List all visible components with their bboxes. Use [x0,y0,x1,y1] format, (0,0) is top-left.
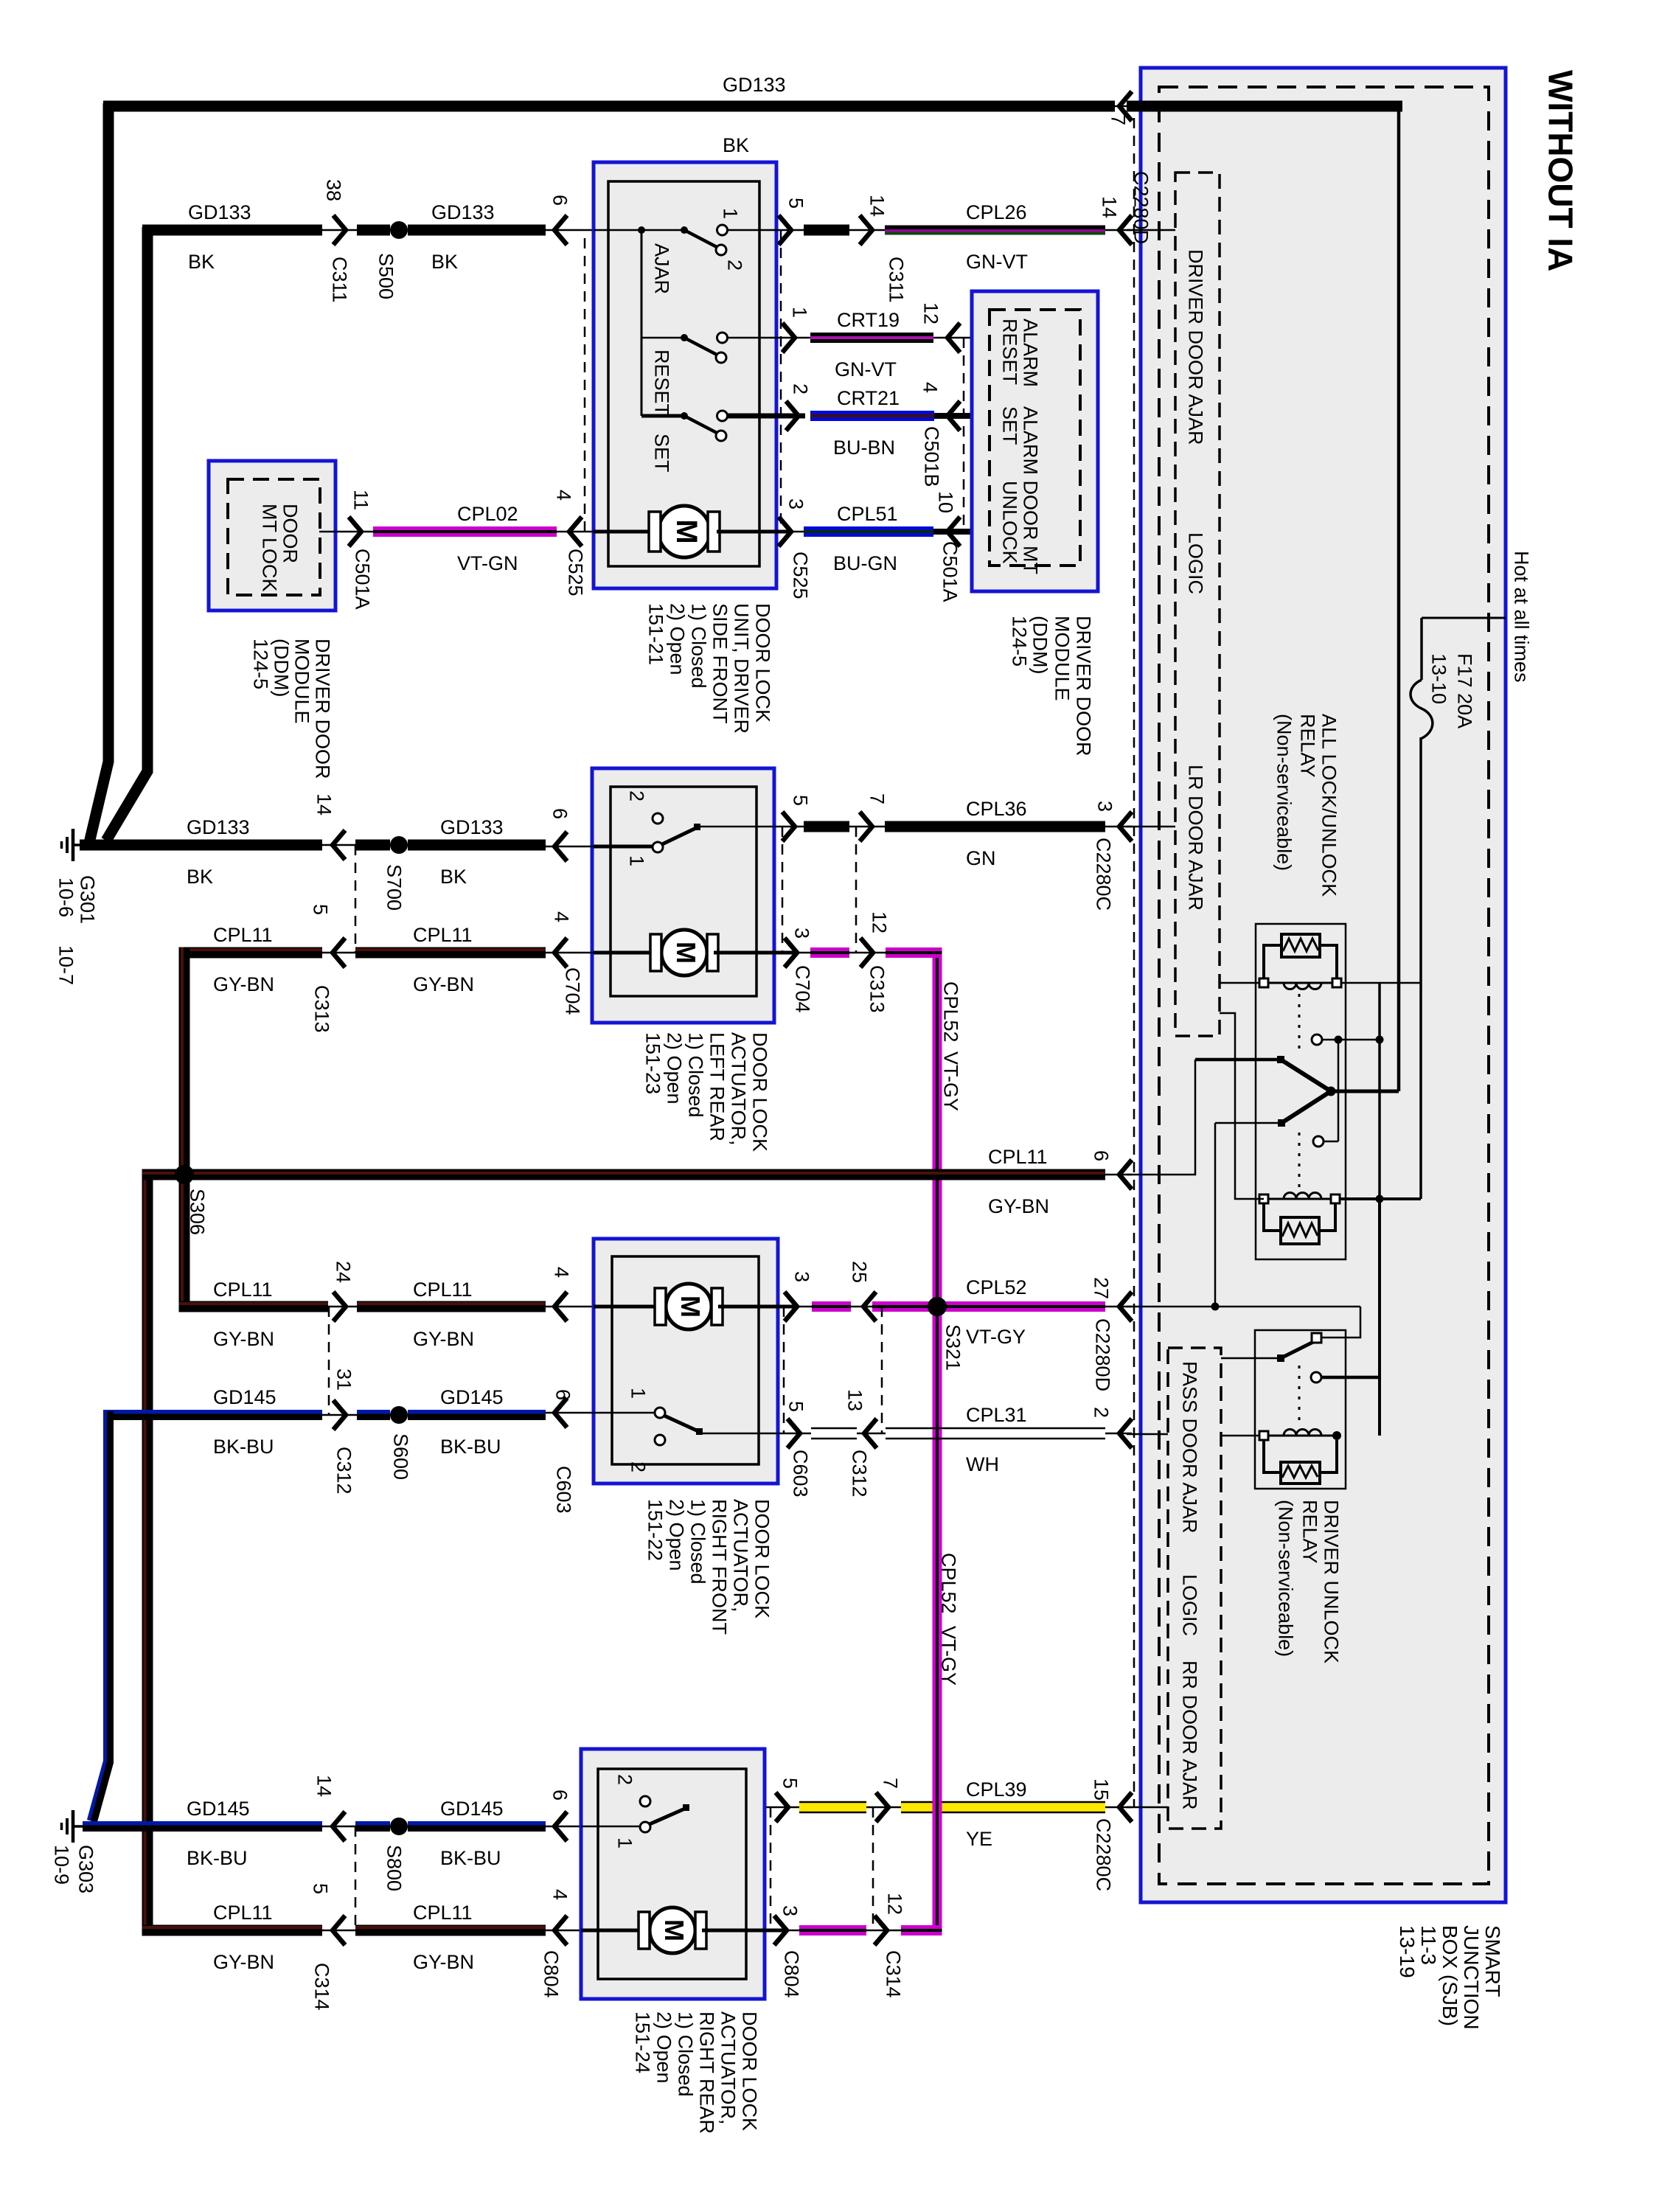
wire CPL51 BU-GN [804,526,933,530]
svg-text:C525: C525 [789,552,811,599]
splice S321 dot top [928,1297,947,1316]
connector chevron pin3 C525 [779,517,791,546]
wire CPL52 link RF [812,1301,851,1305]
relay K1 lower fixed contact [1313,1136,1324,1147]
wire coil L1 to fuse line [1341,982,1421,984]
wire LR motor feed [594,951,652,955]
connector chevron 25 C312 [863,1292,876,1321]
connector chevron pin6 LR [554,832,567,861]
svg-text:LOGIC: LOGIC [1178,1574,1200,1636]
svg-text:DRIVER DOOR AJAR: DRIVER DOOR AJAR [1184,249,1206,445]
svg-text:3: 3 [790,928,813,939]
svg-text:1) Closed: 1) Closed [686,1499,709,1585]
svg-text:M: M [671,942,701,964]
ground G301 [74,844,96,846]
svg-text:C2280D: C2280D [1091,1318,1113,1391]
svg-text:C313: C313 [866,965,888,1013]
svg-text:BU-GN: BU-GN [833,552,897,574]
relay K1 dotted link lower [1298,1133,1301,1189]
wire CPL11 long horizontal [142,1169,1105,1180]
svg-text:5: 5 [789,795,811,806]
wire CRT21 BU-BN [810,411,934,414]
connector chevron pin6 C2280 [1119,1160,1132,1189]
svg-text:DOOR: DOOR [279,504,301,563]
svg-text:151-23: 151-23 [641,1032,664,1094]
connector chevron pin5 C525 [779,215,791,245]
svg-text:27: 27 [1090,1277,1112,1299]
connector chevron pin14 C2280D [1119,215,1132,245]
connector chevron pin15 C2280C [1119,1792,1132,1822]
relay K2 lower contact [1311,1372,1321,1382]
svg-text:LOGIC: LOGIC [1184,532,1206,594]
svg-text:ACTUATOR,: ACTUATOR, [727,1032,749,1146]
wire K2 coil to logic box B [1221,1435,1259,1437]
wire link pin5 to C311 [804,225,849,236]
svg-text:GD145: GD145 [440,1798,504,1820]
motor M LR actuator [661,930,707,975]
svg-text:GN: GN [966,847,996,869]
svg-text:2: 2 [789,383,811,394]
relay K2 coil [1264,1435,1337,1437]
ground G303 [74,1825,96,1828]
switch RR pivot contact [640,1822,650,1832]
wire GD133 left vertical to ground [89,103,108,843]
wire set common thick [641,414,681,418]
svg-text:SIDE FRONT: SIDE FRONT [709,603,731,724]
wire vertical node B+ branch [1378,983,1381,1377]
svg-text:RELAY: RELAY [1298,1500,1321,1564]
svg-text:BK-BU: BK-BU [440,1847,501,1869]
connector C525 left dashed [584,230,586,532]
relay K1 coil L1 terminals [1259,978,1268,987]
connector chevron 5 C313 [333,938,345,967]
connector C314 left dashed [355,1826,357,1930]
wire CPL26 GN-VT [885,226,1105,230]
svg-text:CPL31: CPL31 [966,1404,1027,1426]
svg-text:ALARM: ALARM [1019,319,1041,387]
svg-text:VT-GY: VT-GY [939,1051,961,1111]
wire GD133 row2 right [408,225,546,236]
splice S306 [175,1165,194,1184]
wire GD133 stub before S500 [357,225,390,236]
svg-text:4: 4 [550,911,572,922]
svg-text:BK-BU: BK-BU [213,1436,274,1458]
svg-text:11-3: 11-3 [1417,1925,1440,1965]
svg-text:RESET: RESET [998,319,1020,385]
svg-text:7: 7 [1107,114,1129,125]
svg-text:BK: BK [723,134,749,156]
alarm module dashed box [990,310,1080,566]
wire GD145 vertical [92,1411,108,1821]
connector chevron pin 7 C2280D [1119,91,1132,121]
svg-text:38: 38 [322,179,344,201]
node junction at 1871,1410 [1376,1036,1384,1044]
svg-text:12: 12 [868,911,890,933]
motor M door lock unit [658,506,710,557]
door lock actuator LR box [592,768,774,1023]
svg-text:GD133: GD133 [431,201,495,223]
wire CPL52 to S321 [872,1301,933,1305]
svg-text:MODULE: MODULE [1051,616,1073,701]
relay K1 armature lower [1281,1091,1331,1123]
svg-text:6: 6 [549,1790,571,1801]
wire set out to pin2 [728,414,805,419]
wire GD145 G303 row [83,1821,322,1826]
svg-text:GD133: GD133 [188,201,251,223]
relay K2 resistor [1281,1462,1320,1484]
svg-text:CRT19: CRT19 [837,309,900,331]
svg-text:14: 14 [866,195,888,217]
connector C2280 dashed line [1133,118,1135,1807]
wire RF motor feed [594,1305,655,1309]
svg-text:MODULE: MODULE [291,639,313,724]
svg-text:GN-VT: GN-VT [835,358,897,380]
relay K1 armature pivot [1326,1087,1336,1096]
connector chevron pin6 door lock unit [554,215,567,245]
wire GD133 pin tail [1110,105,1132,108]
connector C804 dashed [770,1807,772,1930]
svg-text:C314: C314 [310,1963,333,2011]
svg-text:14: 14 [313,793,335,815]
svg-text:(DDM): (DDM) [1029,616,1051,674]
svg-text:25: 25 [848,1261,870,1283]
svg-text:CPL39: CPL39 [966,1778,1027,1801]
connector C704 dashed [782,827,784,953]
wire CPL11 upper corner [179,947,322,959]
motor M RF actuator [666,1284,712,1329]
wire pin27 tail inside SJB [1127,1306,1360,1308]
svg-text:RR DOOR AJAR: RR DOOR AJAR [1178,1660,1200,1810]
wire GD145 stub before S800 [355,1821,390,1826]
svg-text:7: 7 [879,1778,901,1789]
svg-text:M: M [659,1919,689,1941]
connector chevron pin4 LR C704 [554,938,567,967]
svg-text:GD145: GD145 [213,1386,276,1408]
connector chevron pin3 RF C603 [785,1292,797,1321]
connector C501 dashed [963,338,965,532]
relay K2 resistor leads [1264,1440,1281,1472]
connector chevron 14 S700 side [333,830,345,860]
connector chevron pin6 RF [554,1398,567,1427]
svg-text:C804: C804 [780,1950,802,1998]
svg-text:CPL11: CPL11 [413,924,473,946]
connector chevron 12 C501B [947,323,960,352]
svg-text:WITHOUT IA: WITHOUT IA [1541,70,1579,271]
wire reset common [641,337,681,339]
svg-text:S600: S600 [389,1433,411,1480]
connector chevron pin3 RR C804 [774,1916,787,1945]
svg-text:CPL11: CPL11 [213,1902,273,1924]
relay K1 dotted link upper [1298,994,1301,1050]
svg-text:CPL52: CPL52 [939,981,961,1043]
relay K1 all lock/unlock box [1256,924,1346,1259]
wire CPL02 VT-GN [373,526,557,530]
svg-text:ALL LOCK/UNLOCK: ALL LOCK/UNLOCK [1318,714,1340,897]
wire RR motor feed [581,1929,639,1933]
wire LR switch common [594,845,653,849]
switch LR pivot contact [653,842,663,852]
svg-text:GY-BN: GY-BN [213,1951,274,1973]
svg-text:3: 3 [779,1905,801,1916]
splice S321 [928,1297,947,1316]
connector C312 left dashed [328,1307,330,1415]
connector chevron pin27 C2280D [1119,1292,1132,1321]
wire CPL52 to vertical corner [886,947,942,951]
svg-text:LR DOOR AJAR: LR DOOR AJAR [1184,765,1206,911]
svg-text:G303: G303 [74,1845,97,1893]
svg-text:1: 1 [719,208,741,219]
svg-text:BK: BK [431,251,458,273]
connector C525 right dashed [780,230,782,532]
wire CPL31 WH segment1 [811,1427,857,1430]
wire GD133 row right [408,840,546,851]
svg-text:VT-GN: VT-GN [457,552,518,574]
svg-text:13-10: 13-10 [1427,653,1450,704]
connector chevron 7 C314 [876,1792,888,1822]
splice S306 dot top [175,1165,194,1184]
wire CPL11 long vertical [142,1169,153,1936]
svg-text:31: 31 [333,1368,355,1391]
svg-text:M: M [675,1295,706,1318]
splice S800 [390,1818,408,1835]
svg-text:CPL11: CPL11 [413,1902,473,1924]
svg-text:11: 11 [349,490,372,510]
connector chevron pin4 RR C804 [554,1916,567,1945]
svg-text:3: 3 [785,498,807,509]
relay K1 coil L2 [1264,1198,1335,1200]
door lock unit box [594,162,776,588]
svg-text:12: 12 [883,1893,905,1915]
svg-text:DOOR LOCK: DOOR LOCK [751,1499,773,1618]
wire switch common bus [641,230,643,416]
smart junction box SJB outline [1141,68,1506,1902]
svg-text:ACTUATOR,: ACTUATOR, [717,2011,739,2125]
svg-text:1: 1 [613,1837,636,1848]
svg-text:RIGHT FRONT: RIGHT FRONT [708,1499,730,1635]
relay K2 upper contact [1312,1333,1321,1343]
svg-text:DRIVER UNLOCK: DRIVER UNLOCK [1320,1500,1342,1663]
svg-text:(Non-serviceable): (Non-serviceable) [1274,1500,1296,1657]
svg-text:WH: WH [966,1453,999,1475]
switch RR armature [650,1808,686,1824]
wire RR motor out [702,1929,787,1933]
wire GD133 row2 left [142,225,322,236]
svg-text:DOOR LOCK: DOOR LOCK [748,1032,771,1152]
wire pin6 armature feed [1195,1058,1277,1062]
svg-text:GD133: GD133 [440,816,504,838]
svg-text:JUNCTION: JUNCTION [1460,1925,1483,2030]
wire pin11 tail [319,531,373,533]
connector C313 right dashed [855,827,858,953]
svg-text:GY-BN: GY-BN [413,973,474,995]
svg-text:GY-BN: GY-BN [988,1195,1049,1217]
svg-text:CPL26: CPL26 [966,201,1027,223]
wire CPL36 GN [885,821,1105,832]
wire contact link vertical [1338,1040,1340,1141]
svg-text:5: 5 [779,1778,801,1789]
switch AJAR contact 2 [716,245,726,255]
connector chevron pin4 RF C603 [554,1292,567,1321]
connector chevron pin1 C525 [782,323,795,352]
wire coil L1 to logic box A [1220,982,1259,984]
fuse F17 output wire [1419,737,1422,1199]
SJB logic box A (driver/LR door ajar) [1175,173,1220,1036]
wire CPL11 bottom right [355,1925,546,1936]
svg-text:CPL02: CPL02 [457,503,518,525]
alarm door module box [972,291,1098,591]
svg-text:G301: G301 [76,875,98,924]
svg-text:C501A: C501A [351,549,373,610]
svg-text:2) Open: 2) Open [653,2011,675,2084]
door lock unit inner box [608,181,759,566]
svg-text:S700: S700 [383,864,405,911]
wire ajar common [594,229,681,232]
svg-text:F17 20A: F17 20A [1453,653,1475,728]
SJB inner dashed boundary [1159,87,1489,1884]
splice S600 [390,1406,408,1424]
door lock actuator RF inner box [612,1256,759,1464]
svg-text:GN-VT: GN-VT [966,251,1028,273]
svg-text:SET: SET [998,406,1020,445]
connector chevron pin11 C501A [349,517,361,546]
motor M RR actuator [650,1907,695,1953]
svg-text:C311: C311 [328,257,350,303]
connector chevron pin5 RR C804 [776,1792,788,1822]
wire CPL11 mid left [179,1301,328,1312]
wire motor feed left [594,530,652,534]
connector chevron 10 C501A [947,517,960,546]
svg-text:13: 13 [844,1389,866,1411]
svg-text:4: 4 [919,382,941,393]
connector chevron pin6 RR [554,1812,567,1841]
svg-text:7: 7 [866,793,888,804]
svg-text:C311: C311 [885,257,907,303]
relay K2 driver unlock box [1255,1330,1346,1489]
svg-text:14: 14 [313,1775,335,1797]
svg-text:ALARM DOOR MT: ALARM DOOR MT [1019,406,1041,574]
wire B+ branch to driver unlock contact [1378,1199,1381,1436]
wire link C704-C313 [804,821,849,832]
svg-text:10: 10 [934,491,956,513]
svg-text:GY-BN: GY-BN [413,1951,474,1973]
wire RF motor out [718,1305,797,1309]
wire CPL31 WH segment2 [886,1427,1105,1430]
wire RF switch out [700,1433,811,1435]
relay K2 armature [1277,1354,1284,1362]
door lock actuator LR inner box [611,787,757,996]
wire CPL39 link segment [799,1802,866,1812]
relay K1 resistor R2 [1281,1217,1319,1244]
connector chevron pin5 LR C704 [782,812,795,841]
svg-text:UNLOCK: UNLOCK [998,481,1020,564]
wire CPL52 bottom corner [901,1925,942,1929]
wire CPL52 link C704-C313 [810,947,849,951]
wire CPL11 S306 drop [179,1175,190,1312]
relay K1 coil L1 [1264,982,1337,984]
wire CPL39 YE run [901,1802,933,1812]
relay K1 coil L2 terminals [1259,1194,1268,1203]
svg-text:GY-BN: GY-BN [213,973,274,995]
connector chevron 4 C525 left [569,517,582,546]
connector C312 right dashed [881,1307,883,1433]
connector chevron 14 C311 [860,215,872,245]
svg-text:1: 1 [625,855,647,866]
switch AJAR contact 1 [717,225,728,235]
wire CPL11 upper vertical [179,947,190,1175]
svg-text:VT-GY: VT-GY [966,1326,1026,1348]
switch RF pivot contact [655,1408,665,1418]
switch RF armature [664,1416,700,1432]
svg-text:AJAR: AJAR [650,243,672,294]
wire motor out right [717,530,791,534]
svg-text:BU-BN: BU-BN [833,437,895,459]
connector chevron pin2 C525 [786,401,799,431]
svg-text:GD145: GD145 [187,1798,250,1820]
node junction at 1871,1626 [1376,1195,1384,1203]
SJB logic box B (pass/RR door ajar) [1168,1348,1221,1829]
svg-text:SMART: SMART [1481,1925,1504,1997]
svg-text:2: 2 [613,1774,636,1785]
svg-text:DOOR LOCK: DOOR LOCK [738,2011,760,2131]
node junction at 1815,1410 [1335,1036,1343,1044]
svg-text:5: 5 [309,904,331,915]
svg-text:4: 4 [550,1267,572,1278]
svg-text:6: 6 [549,808,571,819]
wire LR motor out [714,951,797,955]
svg-text:(Non-serviceable): (Non-serviceable) [1273,714,1295,871]
splice S700 [390,836,408,854]
svg-text:RESET: RESET [650,349,672,416]
wire pin14 tail inside SJB [1127,229,1175,232]
svg-text:DOOR LOCK: DOOR LOCK [751,603,773,723]
wire pin27 to K2 contact [1321,1307,1360,1338]
splice S500 [390,221,408,239]
connector chevron 14 S800 side [333,1812,345,1841]
svg-text:Hot at all times: Hot at all times [1510,551,1532,683]
svg-text:BOX (SJB): BOX (SJB) [1439,1925,1461,2026]
svg-text:CPL11: CPL11 [213,924,273,946]
wire GD133 into SJB [1127,101,1402,112]
connector chevron pin5 RF C603 [787,1419,800,1448]
svg-text:CPL11: CPL11 [213,1279,273,1301]
svg-text:2: 2 [627,1461,649,1472]
connector chevron 31 C312 [333,1400,346,1430]
svg-text:S500: S500 [375,253,397,299]
svg-text:3: 3 [1093,801,1116,812]
svg-text:SET: SET [650,434,672,473]
svg-text:S800: S800 [383,1845,405,1891]
wire pin27 armature feed [1215,1122,1278,1124]
door lock actuator RF box [594,1239,778,1484]
svg-text:UNIT, DRIVER: UNIT, DRIVER [730,603,752,734]
wire GD133 G301 row left [80,840,322,851]
fuse F17 20A feed from bus [1422,617,1506,619]
svg-text:C2280C: C2280C [1092,1818,1114,1891]
svg-text:CPL52: CPL52 [937,1553,959,1614]
connector chevron pin3 LR C704 [785,938,797,967]
fuse F17 element [1411,680,1433,739]
svg-text:GD145: GD145 [440,1386,504,1408]
connector chevron 7 C313 [860,812,872,841]
svg-text:15: 15 [1090,1778,1112,1801]
wire GD145 stub before S600 [357,1410,390,1414]
switch SET armature [681,412,688,420]
svg-text:151-22: 151-22 [644,1499,666,1561]
wire GD145 right [408,1410,546,1414]
connector chevron 24 C312 [333,1292,346,1321]
svg-text:GY-BN: GY-BN [413,1328,474,1350]
svg-text:C704: C704 [791,965,813,1013]
